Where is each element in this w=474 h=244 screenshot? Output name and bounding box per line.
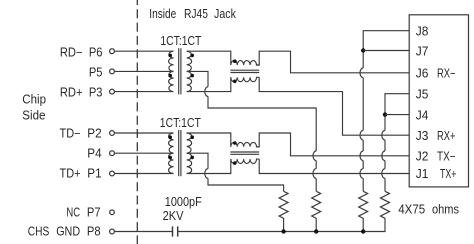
wire hop: R2 feed over J2 line (313, 151, 316, 161)
label: 4X75 ohms (398, 203, 459, 217)
svg-text:J4: J4 (416, 108, 429, 122)
label: J5 (416, 87, 429, 101)
wire choke L1 bottom output to J3 RX+ (259, 77, 409, 135)
T2 secondary polarity dot (top) (190, 135, 194, 139)
wire T2 secondary center tap (187, 153, 208, 169)
transformer T1 secondary winding (187, 51, 192, 91)
svg-text:J3: J3 (416, 129, 429, 143)
svg-text:RD−: RD− (60, 45, 83, 59)
wire R4 feed to resistor top (384, 178, 386, 191)
wire J5 stub and down to R4 (385, 94, 409, 131)
svg-text:1000pF: 1000pF (165, 195, 202, 209)
choke L1 core (230, 70, 259, 72)
pin P5 label (89, 66, 103, 80)
resistor R1 (75 ohm) (279, 191, 288, 231)
pin P3 label RD+ (60, 86, 103, 100)
svg-text:ohms: ohms (432, 203, 459, 217)
pin P5 terminal (110, 69, 115, 74)
pin P1 terminal (110, 171, 115, 176)
svg-text:P3: P3 (89, 86, 103, 100)
label: J6 RX- (416, 67, 456, 81)
wire hop: R3 feed over J2 line (360, 151, 363, 161)
svg-text:TX−: TX− (437, 150, 456, 164)
svg-text:J6: J6 (416, 67, 429, 81)
wire R4 feed segment (384, 161, 386, 169)
pin P4 terminal (110, 151, 115, 156)
resistor R2 (75 ohm) (312, 191, 321, 231)
wire T1 secondary center tap (187, 71, 208, 86)
pin P6 label RD- (60, 45, 103, 59)
choke L1 top coil (231, 61, 259, 65)
pin P2 label TD- (60, 126, 102, 140)
wire P1 to T2 primary bottom (115, 173, 174, 175)
svg-text:Side: Side (22, 108, 45, 122)
label: J7 (416, 44, 429, 58)
T1 secondary polarity dot (top) (190, 54, 194, 58)
junction dot R2 to ground bus (314, 229, 318, 233)
pin P6 terminal (110, 49, 115, 54)
label: 2KV (163, 209, 184, 223)
wire R3 feed to resistor top (362, 178, 364, 191)
wire hop: R3 feed over J1 line (360, 169, 363, 179)
T1 primary polarity dot (lower half) (168, 74, 172, 78)
label: J3 RX+ (416, 129, 456, 143)
wire P3 to T1 primary bottom (115, 91, 174, 93)
svg-text:P4: P4 (87, 147, 101, 161)
wire J7 stub (363, 50, 409, 52)
transformer T2 core (179, 130, 181, 176)
svg-text:J1: J1 (416, 167, 429, 181)
pin P8 terminal (110, 229, 115, 234)
pin P8 label CHS GND (28, 225, 101, 239)
label: 1CT:1CT (T1) (160, 34, 201, 48)
choke L1 bottom coil (231, 77, 259, 81)
choke L1 polarity dot (bottom coil) (233, 80, 237, 84)
wire T2 secondary bottom to choke L2 bottom coil (187, 159, 231, 173)
wire J8 to J7 junction and down to R3 (363, 31, 409, 68)
wire hop: R2 feed over J1 line (313, 169, 316, 179)
wire hop: R4 feed over J3 line (382, 130, 385, 140)
label: J1 TX+ (416, 167, 457, 181)
wire hop: R3 feed over J6 line (360, 68, 363, 78)
svg-text:J7: J7 (416, 44, 429, 58)
label: 1CT:1CT (T2) (160, 116, 201, 130)
wire choke L1 top output to J6 RX- (257, 51, 410, 73)
svg-text:RX−: RX− (437, 67, 456, 81)
T2 primary polarity dot (lower half) (168, 156, 172, 160)
transformer T2 secondary winding (187, 133, 192, 174)
wire hop: R4 feed over J2 line (382, 151, 385, 161)
svg-text:RD+: RD+ (60, 86, 83, 100)
svg-text:P5: P5 (89, 66, 103, 80)
junction dot R3 to ground bus (361, 229, 365, 233)
svg-text:RX+: RX+ (437, 129, 456, 143)
label: 1000pF (165, 195, 202, 209)
transformer T1 primary winding (169, 51, 174, 91)
resistor R4 (75 ohm) (381, 191, 390, 218)
svg-text:TX+: TX+ (440, 167, 456, 181)
pin P7 label NC (66, 206, 100, 220)
choke L2 polarity dot (top coil) (233, 141, 237, 145)
T1 secondary polarity dot (lower half) (190, 74, 194, 78)
wire T1 secondary top to choke L1 (187, 51, 231, 65)
choke L2 polarity dot (bottom coil) (233, 161, 237, 165)
wire J4 stub (385, 114, 409, 116)
wire hop: T2 center tap over secondary bottom wire (205, 169, 208, 179)
T2 primary polarity dot (top) (168, 135, 172, 139)
wire P6 to T1 primary top (115, 50, 174, 52)
pin P2 terminal (110, 131, 115, 136)
junction dot J4/J5 tie (383, 112, 387, 116)
svg-text:TD+: TD+ (60, 167, 81, 181)
junction dot J7/J8 tie (361, 48, 365, 52)
dashed jack boundary line (136, 0, 138, 244)
T1 primary polarity dot (top) (168, 54, 172, 58)
svg-text:P7: P7 (87, 206, 101, 220)
svg-text:J5: J5 (416, 87, 429, 101)
svg-text:NC: NC (66, 206, 80, 220)
transformer T2 primary winding (169, 133, 174, 174)
wire T2 center tap down and right to R1 (208, 178, 284, 191)
transformer T1 core (179, 48, 181, 94)
pin P7 terminal (no connect) (110, 210, 115, 215)
wire R2 feed between hops (315, 161, 317, 169)
label: J2 TX- (416, 150, 456, 164)
pin P1 label TD+ (60, 167, 102, 181)
junction dot R1 to ground bus (281, 229, 285, 233)
RJ45 connector box U1 (409, 15, 468, 187)
wire choke L2 bottom output to J1 TX+ (259, 159, 409, 173)
svg-text:Jack: Jack (214, 7, 237, 21)
svg-text:2KV: 2KV (163, 209, 184, 223)
wire R3 feed segment (362, 78, 364, 131)
svg-text:RJ45: RJ45 (184, 7, 208, 21)
label: Inside RJ45 Jack (149, 7, 236, 21)
svg-text:P2: P2 (87, 126, 101, 140)
wire R4 feed segment (384, 140, 386, 151)
wire T1 secondary bottom to choke L1 bottom coil (187, 77, 231, 91)
wire T1 center tap down to node, then right to R2 (208, 96, 316, 151)
svg-text:P6: P6 (89, 45, 103, 59)
label: J8 (416, 24, 429, 38)
wire P4 to T2 primary center tap (115, 152, 174, 154)
pin P3 terminal (110, 89, 115, 94)
capacitor C1 plates (173, 226, 178, 236)
choke L1 polarity dot (top coil) (233, 59, 237, 63)
wire choke L2 top output to J2 TX- (257, 133, 410, 156)
label: Chip Side (22, 93, 46, 123)
label: J4 (416, 108, 429, 122)
svg-text:Chip: Chip (22, 93, 46, 107)
svg-text:Inside: Inside (149, 7, 176, 21)
resistor R3 (75 ohm) (359, 191, 368, 231)
svg-text:4X75: 4X75 (398, 203, 425, 217)
svg-text:P8: P8 (87, 225, 101, 239)
wire R2 feed to resistor top (315, 178, 317, 191)
svg-text:1CT:1CT: 1CT:1CT (160, 34, 201, 48)
ground bus wire from C1 to resistors (178, 218, 385, 231)
svg-text:J8: J8 (416, 24, 429, 38)
wire hop: T1 center tap over secondary bottom wire (205, 87, 208, 97)
svg-text:J2: J2 (416, 150, 429, 164)
wire hop: R4 feed over J1 line (382, 169, 385, 179)
wire R3 feed segment (362, 140, 364, 151)
wire R3 feed segment (362, 161, 364, 169)
wire P2 to T2 primary top (115, 132, 174, 134)
wire P5 to T1 primary center tap (115, 70, 174, 72)
pin P4 label (87, 147, 101, 161)
wire P8 to capacitor C1 (115, 231, 172, 233)
svg-text:P1: P1 (87, 167, 101, 181)
svg-text:GND: GND (56, 225, 80, 239)
svg-text:TD−: TD− (60, 126, 81, 140)
svg-text:CHS: CHS (28, 225, 50, 239)
choke L2 core (230, 152, 259, 154)
svg-text:1CT:1CT: 1CT:1CT (160, 116, 201, 130)
wire T2 secondary top to choke L2 (187, 133, 231, 147)
T2 secondary polarity dot (lower half) (190, 156, 194, 160)
wire hop: R3 feed over J3 line (360, 130, 363, 140)
choke L2 bottom coil (231, 159, 259, 163)
choke L2 top coil (231, 142, 259, 146)
